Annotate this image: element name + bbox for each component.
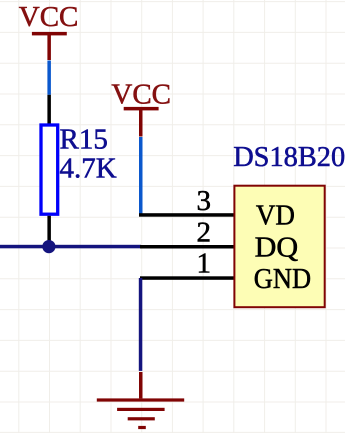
svg-text:1: 1 — [196, 248, 211, 280]
svg-text:GND: GND — [254, 263, 311, 295]
svg-text:3: 3 — [196, 185, 211, 217]
svg-text:R15: R15 — [60, 124, 108, 156]
svg-text:DQ: DQ — [255, 232, 299, 264]
svg-text:VCC: VCC — [111, 79, 171, 111]
svg-text:VD: VD — [256, 200, 295, 232]
svg-text:2: 2 — [196, 217, 211, 249]
svg-text:DS18B20: DS18B20 — [233, 141, 345, 173]
svg-text:4.7K: 4.7K — [60, 152, 117, 184]
svg-text:VCC: VCC — [19, 1, 79, 33]
